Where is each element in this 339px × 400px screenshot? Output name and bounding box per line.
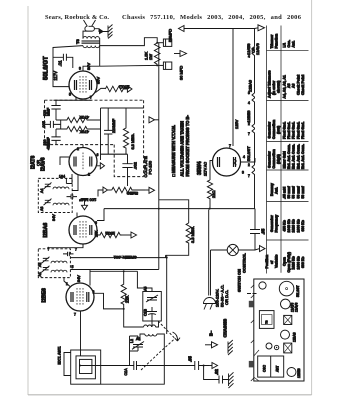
svg-text:Float Gnd.: Float Gnd.: [283, 122, 287, 139]
junction B+ top: [156, 42, 158, 44]
svg-text:22K: 22K: [125, 295, 130, 303]
wire voice coil to chassis: [94, 29, 108, 32]
svg-text:6: 6: [95, 221, 97, 225]
wire bus to 3.3MEG: [159, 200, 189, 223]
chassis symbol top: [108, 25, 113, 39]
svg-text:T3: T3: [75, 39, 80, 44]
svg-text:PC-150: PC-150: [148, 160, 153, 174]
wire top heater rail: [184, 28, 255, 30]
osc coil winding 1: [144, 325, 156, 327]
svg-text:Ext. Ant. Conn.: Ext. Ant. Conn.: [296, 144, 300, 169]
svg-text:7: 7: [248, 174, 250, 178]
wire main vertical bus: [158, 43, 160, 270]
power cord double line: [209, 210, 211, 296]
svg-text:3: 3: [242, 171, 244, 175]
svg-text:3: 3: [79, 67, 81, 71]
box A5 C1B: [143, 292, 162, 322]
svg-text:1&4: 1&4: [59, 175, 65, 179]
wire T1 pin5 right: [70, 269, 158, 271]
svg-text:1W: 1W: [148, 54, 153, 60]
svg-text:(high): (high): [277, 154, 281, 164]
wire 1.5K top to 50MFD: [157, 42, 163, 44]
svg-text:30 MFD: 30 MFD: [179, 66, 184, 80]
svg-text:Open (Fully): Open (Fully): [287, 252, 291, 272]
wire 12AT6 plate: [100, 137, 102, 160]
svg-text:A5: A5: [144, 287, 148, 291]
svg-text:Generator: Generator: [268, 121, 272, 138]
resistor 22K: [121, 271, 126, 309]
svg-text:5MEG: 5MEG: [127, 191, 138, 196]
tube 12BA6 envelope: [69, 216, 97, 244]
svg-text:Generator: Generator: [268, 151, 272, 168]
svg-text:150Ω: 150Ω: [105, 231, 115, 236]
wire 22K bottom to osc coil: [124, 309, 144, 327]
wire 1.5K bottom to 30MFD: [157, 64, 163, 66]
wire 12BE6 bottom to loop: [80, 311, 82, 356]
chassis ground bottom: [229, 372, 234, 388]
wire 3.3MEG bottom: [166, 245, 189, 255]
wire lamp right: [238, 249, 255, 251]
chassis layout front hatch: [251, 285, 254, 381]
wire plate thick: [101, 153, 128, 155]
wire trimmer to bus: [130, 336, 139, 366]
svg-text:3: 3: [248, 45, 250, 49]
wire 12BE6 pin to 22K bottom: [94, 293, 124, 309]
svg-text:470K: 470K: [79, 115, 89, 120]
svg-text:EXT. ANT.: EXT. ANT.: [57, 346, 62, 364]
T1 winding 2: [51, 270, 67, 272]
svg-text:90V: 90V: [86, 63, 91, 70]
svg-text:1620 Kc: 1620 Kc: [292, 256, 296, 269]
wire lamp left: [211, 249, 228, 251]
wire 12BA6 grid top: [76, 213, 78, 217]
speaker voice coil: [85, 26, 94, 31]
arrow solid speaker: [100, 29, 104, 33]
svg-text:Mixer Grid: Mixer Grid: [283, 151, 287, 168]
svg-text:C1A: C1A: [124, 368, 128, 376]
wire osc coil 2 to bus: [101, 334, 165, 384]
junction cord bus: [209, 208, 211, 210]
svg-text:Ext. Ant. Conn.: Ext. Ant. Conn.: [292, 144, 296, 169]
svg-text:Function: Function: [274, 34, 278, 49]
svg-text:15K: 15K: [95, 230, 99, 237]
capacitor 50MFD electrolytic: [163, 39, 171, 46]
svg-text:OSC: OSC: [263, 364, 267, 372]
connector arrow cathode: [127, 86, 132, 92]
svg-text:1: 1: [77, 147, 79, 151]
capacitor C1A: [130, 361, 142, 370]
svg-text:ALL VOLTAGES ARE TAKEN: ALL VOLTAGES ARE TAKEN: [180, 121, 185, 177]
svg-text:7: 7: [248, 132, 250, 136]
svg-text:A1: A1: [38, 272, 42, 276]
chain notch 12BA6: [252, 93, 255, 104]
junction B+ bottom: [156, 64, 158, 66]
svg-text:Position: Position: [265, 255, 269, 269]
svg-text:220MMF: 220MMF: [112, 118, 116, 133]
wire right rail couplate: [101, 108, 144, 137]
loop antenna mid: [76, 356, 95, 379]
chassis layout outer: [254, 279, 304, 381]
svg-text:5: 5: [72, 265, 74, 269]
svg-text:.005: .005: [42, 121, 46, 128]
junction x165: [166, 257, 168, 259]
gang pointer lines: [254, 350, 259, 381]
capacitor .05 bottom bus: [194, 361, 209, 370]
svg-text:85V: 85V: [96, 77, 101, 84]
svg-text:•52V: •52V: [47, 142, 51, 150]
connector arrow top left: [179, 26, 185, 32]
svg-text:.01: .01: [58, 60, 63, 67]
wire main horizontal bus: [104, 208, 255, 210]
svg-text:.05: .05: [187, 356, 192, 362]
svg-text:Ant.: Ant.: [274, 187, 278, 194]
resistor 1.5K 1W: [154, 43, 160, 64]
pilot lamp: [227, 244, 238, 255]
svg-text:I2BE6: I2BE6: [41, 288, 47, 303]
wire to arrow: [123, 88, 127, 90]
tube 12AT6 envelope: [69, 148, 97, 176]
transformer T3 primary: [83, 37, 99, 39]
T1 trimmer cap 2: [42, 266, 50, 273]
svg-text:7: 7: [90, 96, 92, 100]
svg-text:4: 4: [248, 55, 250, 59]
chassis output transformer: [259, 311, 274, 329]
svg-text:470K: 470K: [79, 129, 89, 134]
chassis socket 50L6GT: [279, 281, 294, 296]
page edge bottom: [28, 394, 312, 396]
connector arrow down AVC: [82, 205, 88, 210]
svg-text:50L6/6T: 50L6/6T: [246, 146, 251, 161]
svg-text:Open: Open: [283, 257, 287, 266]
wire bottom bus left: [80, 365, 130, 367]
junction loop bus: [79, 365, 81, 367]
chassis IF can T2: [284, 315, 292, 324]
svg-text:□ MEASURE WITH V.T.V.M.: □ MEASURE WITH V.T.V.M.: [171, 125, 176, 177]
svg-text:A5: A5: [287, 83, 291, 88]
dashed gang link low: [141, 339, 175, 371]
trimmer A6 ant: [132, 342, 144, 350]
wire osc coil right: [152, 321, 159, 327]
wire 50L6 grid down: [75, 98, 77, 101]
wire 12BA6 bottom to T1: [48, 244, 83, 251]
svg-text:MMF: MMF: [47, 107, 51, 116]
table grid lines: [267, 26, 309, 274]
svg-text:shown): shown): [277, 81, 281, 93]
wire grid top rail: [53, 99, 91, 101]
page edge right: [311, 0, 313, 395]
svg-text:FROM SOCKET PRONGS TO B-: FROM SOCKET PRONGS TO B-: [185, 115, 190, 177]
T1 winding 1: [51, 261, 67, 263]
power plug: [204, 298, 216, 310]
svg-text:12AV6: 12AV6: [295, 302, 299, 312]
svg-text:CONTROL: CONTROL: [241, 253, 246, 273]
svg-text:50 mmf: 50 mmf: [292, 185, 296, 198]
svg-text:2: 2: [88, 173, 90, 177]
capacitor green 001: [63, 252, 74, 256]
svg-text:A2: A2: [38, 263, 42, 267]
resistor 22 ohm: [207, 180, 212, 209]
svg-text:117V AC: 117V AC: [204, 162, 208, 176]
svg-text:OR D.C.: OR D.C.: [224, 290, 229, 305]
resistor 3.3MEG: [186, 223, 191, 245]
svg-text:Sears, Roebuck & Co.: Sears, Roebuck & Co.: [45, 14, 109, 21]
wire primary left to voice coil: [83, 31, 87, 38]
tube 35W4 internals: [218, 157, 220, 167]
connector arrow bus upper: [149, 117, 155, 123]
wire x165 vertical: [165, 255, 167, 257]
resistor 470K no2: [56, 126, 101, 131]
svg-text:50 mmf: 50 mmf: [287, 185, 291, 198]
svg-text:50L6/GT: 50L6/GT: [44, 56, 50, 80]
tube 50L6 plate wire: [83, 66, 100, 71]
tube 35W4 envelope: [213, 148, 241, 176]
connector arrow 5MEG right: [149, 187, 155, 193]
svg-text:.02: .02: [214, 369, 219, 375]
connector arrow bottom bus: [212, 363, 218, 369]
tube 12BA6 internals: [74, 225, 76, 235]
wire 12BE6 grid to T1: [64, 278, 70, 287]
capacitor 220MMF no1: [51, 100, 60, 120]
wire secondary left to grid bus: [53, 46, 83, 87]
svg-text:94V: 94V: [52, 214, 56, 221]
capacitor .05 right: [250, 209, 260, 250]
connector arrow B+: [180, 51, 187, 57]
capacitor .002: [122, 154, 132, 186]
capacitor 220MMF no3: [104, 108, 112, 154]
svg-text:125V: 125V: [234, 119, 239, 129]
wire box top to rail: [137, 271, 152, 291]
svg-text:.05 mfd: .05 mfd: [283, 187, 287, 199]
wire to .02 cap: [204, 366, 219, 380]
svg-text:ANT: ANT: [276, 366, 280, 372]
svg-text:Frequency: Frequency: [274, 215, 278, 233]
svg-text:Osc.: Osc.: [287, 40, 291, 48]
junction 22K bottom: [123, 308, 125, 310]
svg-text:22Ω: 22Ω: [211, 191, 216, 198]
volume control 5MEG: [112, 187, 145, 192]
chassis IF can T1: [284, 343, 292, 353]
capacitor 220MMF no2: [51, 129, 60, 145]
svg-text:Check Point: Check Point: [296, 74, 300, 95]
svg-text:600 Kc: 600 Kc: [301, 220, 305, 231]
svg-text:50 mmf: 50 mmf: [301, 185, 305, 198]
svg-text:455 Kc: 455 Kc: [283, 220, 287, 231]
svg-text:CHASSIS: CHASSIS: [223, 319, 228, 338]
svg-text:Ext. Ant. Conn.: Ext. Ant. Conn.: [301, 144, 305, 169]
diode arrow 12AT6: [97, 163, 105, 169]
connector arrow 150ohm: [131, 232, 137, 238]
svg-text:2: 2: [248, 122, 250, 126]
junction 22K top: [123, 270, 125, 272]
chassis socket 12AT6: [281, 299, 291, 309]
chassis socket 12BE6: [287, 368, 296, 377]
tube 12BE6 internals: [71, 292, 73, 302]
svg-text:Float Gnd.: Float Gnd.: [296, 122, 300, 139]
couplate dashed box: [45, 99, 144, 101]
svg-text:50 mmf: 50 mmf: [296, 185, 300, 198]
svg-text:Ext. Ant. Conn.: Ext. Ant. Conn.: [287, 144, 291, 169]
svg-text:I2AV6: I2AV6: [41, 157, 47, 171]
wire T2 pin to tube: [72, 175, 78, 191]
T2 trimmer cap 2: [44, 199, 52, 206]
svg-text:3: 3: [248, 91, 250, 95]
svg-text:Adjust Trimmers: Adjust Trimmers: [268, 70, 272, 98]
svg-text:Float Gnd.: Float Gnd.: [301, 122, 305, 139]
capacitor .005: [45, 120, 61, 129]
tube 12BE6 envelope: [66, 283, 94, 311]
page edge left: [27, 6, 29, 395]
wire screen to B+ bus: [100, 64, 158, 67]
svg-text:T3: T3: [265, 320, 269, 324]
loop antenna outer: [71, 350, 101, 384]
svg-text:1000 Kc: 1000 Kc: [296, 219, 300, 232]
wire bus left end drop: [97, 209, 104, 221]
wire secondary right to B+: [99, 38, 157, 46]
svg-text:12BE6: 12BE6: [297, 368, 301, 378]
svg-text:117V: 117V: [53, 71, 58, 81]
svg-text:Dummy: Dummy: [270, 183, 274, 196]
svg-text:Trimmer: Trimmer: [270, 34, 274, 48]
chain notch 12AT6: [252, 47, 255, 58]
svg-text:100 MMF: 100 MMF: [79, 198, 96, 203]
T2 winding 1: [53, 187, 69, 189]
wiper arrow 5MEG: [103, 187, 108, 193]
svg-text:600 Kc: 600 Kc: [301, 257, 305, 268]
tube 50L6 internals: [75, 80, 77, 90]
connector arrow chain top: [258, 25, 265, 31]
svg-text:Variable: Variable: [274, 255, 278, 268]
svg-text:6.8 MEG.: 6.8 MEG.: [131, 133, 135, 149]
svg-text:A3: A3: [292, 83, 296, 88]
svg-text:4: 4: [248, 101, 250, 105]
wire 35W4 cathode left: [210, 161, 213, 181]
chassis gang capacitor: [258, 356, 284, 377]
svg-text:7: 7: [74, 313, 76, 317]
svg-text:12BA6: 12BA6: [293, 332, 297, 342]
transformer T3 core: [82, 41, 100, 43]
tube 12AT6 internals: [74, 157, 76, 167]
svg-text:L2: L2: [130, 339, 134, 343]
resistor 6.8MEG: [123, 108, 128, 154]
svg-text:1620 Kc: 1620 Kc: [292, 219, 296, 232]
chain notch 50L6: [252, 165, 255, 176]
svg-text:Connection: Connection: [272, 149, 276, 168]
IF transformer T1 dashed box: [38, 249, 70, 278]
resistor 150ohm 12BA6: [97, 232, 122, 237]
svg-text:50MFD: 50MFD: [168, 29, 173, 42]
connector arrow B-: [212, 342, 218, 348]
svg-text:I2BA6: I2BA6: [43, 223, 49, 238]
svg-text:1000 Kc: 1000 Kc: [296, 256, 300, 269]
svg-text:(low): (low): [277, 126, 281, 134]
switch symbol: [247, 293, 257, 295]
junction bottom bus: [203, 365, 205, 367]
wire T2 to 12AT6 cathode: [66, 174, 72, 184]
IF transformer T2 dashed box: [38, 178, 72, 212]
svg-text:Check Point: Check Point: [301, 74, 305, 95]
capacitor 30MFD electrolytic: [163, 62, 171, 69]
wire cathode: [96, 88, 106, 92]
svg-text:94V: 94V: [77, 275, 81, 282]
dashed gang link high: [158, 321, 175, 339]
svg-text:7: 7: [229, 144, 231, 148]
wire grid left 12AT6: [60, 157, 69, 165]
trimmer A5: [146, 295, 158, 302]
wire bottom bus mid: [141, 365, 194, 367]
wire osc top rail: [90, 270, 137, 272]
chassis small circle 1: [266, 343, 272, 349]
connector arrow right bus: [260, 246, 266, 252]
chassis shaft nub 2: [249, 361, 254, 368]
chain notch 12BE6: [252, 124, 255, 135]
wire y257 horizontal: [70, 255, 166, 334]
capacitor .01: [53, 54, 73, 68]
wire 12BE6 pin6 up: [89, 270, 91, 286]
chassis ground mid: [228, 340, 233, 355]
T2 winding 2: [53, 203, 69, 205]
svg-text:A4: A4: [40, 189, 44, 193]
svg-text:6: 6: [97, 153, 99, 157]
tuning arrow: [173, 332, 181, 341]
svg-text:4: 4: [243, 155, 245, 159]
wire primary right riser: [98, 39, 100, 67]
svg-text:I.F.: I.F.: [283, 43, 287, 48]
svg-text:C1B: C1B: [144, 308, 148, 316]
svg-text:2: 2: [248, 163, 250, 167]
tube 50L6 envelope: [69, 71, 97, 99]
svg-text:Generator: Generator: [270, 215, 274, 232]
junction bus cross: [158, 208, 160, 210]
svg-text:Float Gnd.: Float Gnd.: [287, 122, 291, 139]
chassis socket 12BA6: [281, 330, 290, 339]
svg-text:1: 1: [66, 282, 68, 286]
svg-text:50L6GT: 50L6GT: [296, 285, 300, 297]
svg-text:.05: .05: [261, 228, 266, 234]
svg-text:B–: B–: [209, 330, 214, 336]
wire ext ant lead: [64, 353, 71, 376]
svg-text:5: 5: [69, 93, 71, 97]
transformer T3 secondary: [83, 46, 99, 48]
osc coil winding 2: [145, 334, 157, 336]
heater chain wire: [254, 29, 256, 209]
chassis shaft nub 1: [249, 301, 254, 308]
wire 35W4 plate riser: [232, 29, 234, 147]
svg-text:(In order: (In order: [272, 80, 276, 95]
T2 trimmer cap 1: [44, 183, 52, 190]
svg-text:A3: A3: [40, 207, 44, 211]
capacitor 100MMF: [67, 194, 78, 198]
svg-text:12BE6: 12BE6: [246, 110, 251, 123]
svg-text:Float Gnd.: Float Gnd.: [292, 122, 296, 139]
T1 trimmer cap 1: [42, 257, 50, 264]
wire 12AT6 plate top: [82, 145, 84, 148]
svg-text:.002: .002: [134, 162, 138, 169]
wire 35W4 right pins: [241, 158, 256, 162]
capacitor .02: [219, 376, 229, 384]
speaker cone: [84, 20, 96, 26]
svg-text:12AV6: 12AV6: [255, 43, 260, 55]
loop antenna inner: [80, 359, 92, 373]
resistor 470K no1: [56, 117, 101, 122]
svg-text:Chassis 757.110, Models 2003,: Chassis 757.110, Models 2003, 2004, 2005…: [122, 14, 302, 21]
chassis small circle 2: [274, 345, 278, 349]
svg-text:1640 Kc: 1640 Kc: [287, 219, 291, 232]
capacitor C1B: [147, 307, 157, 321]
svg-text:35W4: 35W4: [197, 161, 203, 175]
junction T1 top: [47, 247, 49, 249]
resistor 150 ohm cathode: [105, 86, 123, 92]
svg-text:A4, A3, A2, A1: A4, A3, A2, A1: [283, 75, 287, 98]
